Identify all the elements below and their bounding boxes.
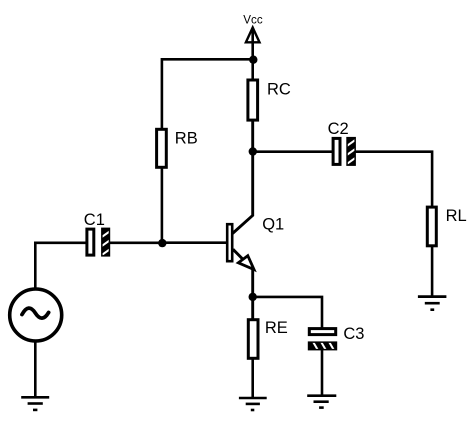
svg-text:RL: RL: [446, 207, 467, 225]
svg-text:RC: RC: [267, 80, 291, 98]
svg-text:C1: C1: [84, 211, 105, 229]
svg-text:C2: C2: [328, 120, 349, 138]
svg-text:C3: C3: [343, 325, 364, 343]
svg-text:Vcc: Vcc: [243, 14, 263, 27]
svg-text:RB: RB: [175, 130, 198, 148]
svg-text:Q1: Q1: [262, 215, 284, 233]
svg-text:RE: RE: [265, 319, 288, 337]
